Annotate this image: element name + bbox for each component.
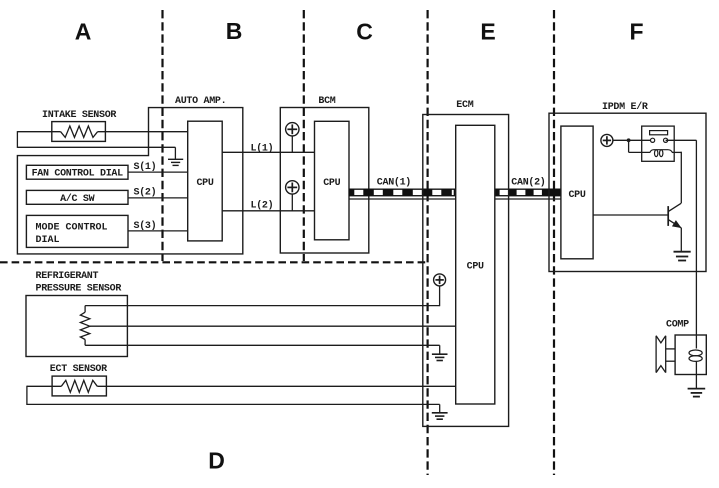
a/c switch box bbox=[26, 190, 128, 204]
svg-text:IPDM E/R: IPDM E/R bbox=[602, 101, 648, 113]
battery symbol 2 (BCM) bbox=[286, 181, 299, 194]
mode control dial box bbox=[26, 215, 128, 247]
svg-text:L(2): L(2) bbox=[251, 200, 274, 212]
wire junction down bbox=[628, 140, 630, 152]
ECM CPU box bbox=[456, 125, 495, 404]
dashed divider C/E bbox=[427, 10, 429, 475]
svg-text:MODE CONTROL: MODE CONTROL bbox=[36, 223, 108, 234]
wire battery 1 stub bbox=[291, 136, 293, 153]
resistor (refrigerant sensor) bbox=[80, 312, 89, 339]
wire intake return bbox=[17, 146, 175, 148]
wire L(1) bbox=[222, 151, 314, 153]
svg-text:DIAL: DIAL bbox=[36, 235, 60, 246]
ground (ECM 2) bbox=[432, 412, 448, 414]
svg-text:INTAKE SENSOR: INTAKE SENSOR bbox=[42, 110, 116, 121]
svg-text:CPU: CPU bbox=[196, 178, 213, 189]
wire refrigerant signal bbox=[90, 325, 456, 327]
svg-text:A: A bbox=[75, 19, 92, 45]
wire ECT return bbox=[27, 403, 440, 405]
wire battery 2 stub bbox=[291, 194, 293, 211]
BCM CPU box bbox=[315, 121, 350, 240]
wire intake return left bbox=[16, 131, 18, 148]
wire to ECM ground 2 bbox=[439, 404, 441, 412]
wire S(1) bbox=[128, 171, 188, 173]
CAN(1) twisted line bbox=[349, 189, 456, 197]
wire ECT left down bbox=[26, 386, 28, 405]
wire to ECM ground 1 bbox=[439, 345, 441, 354]
dashed divider E/F bbox=[553, 10, 555, 475]
wire down to compressor bbox=[695, 140, 697, 335]
ground (auto amp) bbox=[168, 158, 183, 160]
svg-text:BCM: BCM bbox=[318, 96, 335, 107]
resistor (ECT sensor) bbox=[61, 380, 97, 392]
relay box bbox=[642, 126, 675, 161]
svg-text:B: B bbox=[226, 18, 243, 44]
transistor Q1 bbox=[667, 206, 669, 226]
svg-text:CAN(1): CAN(1) bbox=[377, 177, 411, 189]
svg-text:ECM: ECM bbox=[456, 100, 473, 111]
relay coil bbox=[650, 150, 672, 153]
wire emitter down bbox=[680, 228, 682, 252]
refrigerant pressure sensor box bbox=[26, 296, 127, 357]
wire refrigerant ground bbox=[85, 344, 440, 346]
wire battery to relay bbox=[613, 139, 651, 141]
battery symbol (IPDM) bbox=[601, 134, 613, 146]
wire ECT left lead bbox=[27, 385, 61, 387]
svg-text:A/C SW: A/C SW bbox=[60, 193, 95, 205]
resistor (intake sensor) bbox=[61, 126, 98, 137]
wire refrigerant supply bbox=[85, 305, 440, 307]
svg-text:D: D bbox=[208, 448, 225, 474]
svg-text:F: F bbox=[629, 19, 643, 45]
svg-text:CPU: CPU bbox=[568, 190, 585, 201]
wire sensor top lead bbox=[84, 306, 86, 313]
svg-text:ECT SENSOR: ECT SENSOR bbox=[50, 364, 107, 375]
wire S(2) bbox=[128, 197, 188, 199]
svg-text:CAN(2): CAN(2) bbox=[511, 177, 545, 189]
COMP box bbox=[675, 335, 706, 375]
junction dot bbox=[627, 138, 631, 142]
magnet clutch pulley bbox=[655, 336, 657, 373]
dashed divider horizontal D bbox=[0, 261, 428, 263]
wire collector up bbox=[680, 152, 682, 203]
IPDM E/R box bbox=[549, 113, 706, 271]
wire coil to transistor bbox=[672, 151, 681, 153]
svg-text:PRESSURE SENSOR: PRESSURE SENSOR bbox=[36, 283, 122, 294]
svg-text:CPU: CPU bbox=[323, 178, 340, 189]
CAN(2) twisted line bbox=[495, 189, 561, 197]
wire relay contact out bbox=[666, 139, 697, 141]
BCM box bbox=[280, 108, 369, 254]
relay contact bar bbox=[650, 131, 668, 135]
wire sensor bottom lead bbox=[84, 340, 86, 346]
svg-text:S(2): S(2) bbox=[134, 187, 157, 199]
ground (IPDM) bbox=[674, 251, 691, 253]
relay contact terminal left bbox=[651, 138, 655, 142]
ECM box bbox=[423, 115, 509, 427]
wire compressor to ground bbox=[695, 375, 697, 389]
ECT sensor box bbox=[52, 376, 106, 396]
wire intake signal bbox=[17, 131, 60, 133]
svg-text:COMP: COMP bbox=[666, 320, 689, 331]
auto amp CPU box bbox=[188, 121, 223, 241]
clutch shaft bars bbox=[666, 348, 675, 350]
svg-text:C: C bbox=[356, 19, 373, 45]
auto amp unit box (L-shape) bbox=[17, 108, 242, 254]
wire battery stub (ECM) bbox=[439, 286, 441, 306]
svg-text:REFRIGERANT: REFRIGERANT bbox=[36, 271, 99, 282]
wire to relay coil bbox=[629, 151, 651, 153]
svg-text:S(1): S(1) bbox=[134, 161, 157, 173]
ground (compressor) bbox=[688, 388, 706, 390]
svg-text:CPU: CPU bbox=[467, 262, 484, 273]
transistor base wire bbox=[593, 214, 668, 216]
wire L(2) bbox=[222, 210, 314, 212]
dashed divider A/B bbox=[161, 10, 163, 261]
dashed divider B/C bbox=[303, 10, 305, 261]
svg-text:E: E bbox=[480, 19, 495, 45]
ground (ECM 1) bbox=[432, 353, 448, 355]
compressor coil bbox=[695, 335, 697, 349]
relay contact terminal right bbox=[664, 138, 668, 142]
IPDM CPU box bbox=[561, 126, 593, 259]
battery symbol (ECM) bbox=[434, 274, 446, 286]
svg-text:AUTO AMP.: AUTO AMP. bbox=[175, 96, 226, 107]
svg-text:FAN CONTROL DIAL: FAN CONTROL DIAL bbox=[32, 169, 124, 180]
wire to auto amp ground bbox=[174, 147, 176, 159]
wire ECT signal bbox=[97, 385, 455, 387]
battery symbol 1 (BCM) bbox=[286, 123, 299, 136]
wire S(3) bbox=[128, 230, 188, 232]
intake sensor box bbox=[52, 122, 106, 142]
fan control dial box bbox=[26, 165, 128, 179]
svg-text:S(3): S(3) bbox=[134, 220, 157, 232]
